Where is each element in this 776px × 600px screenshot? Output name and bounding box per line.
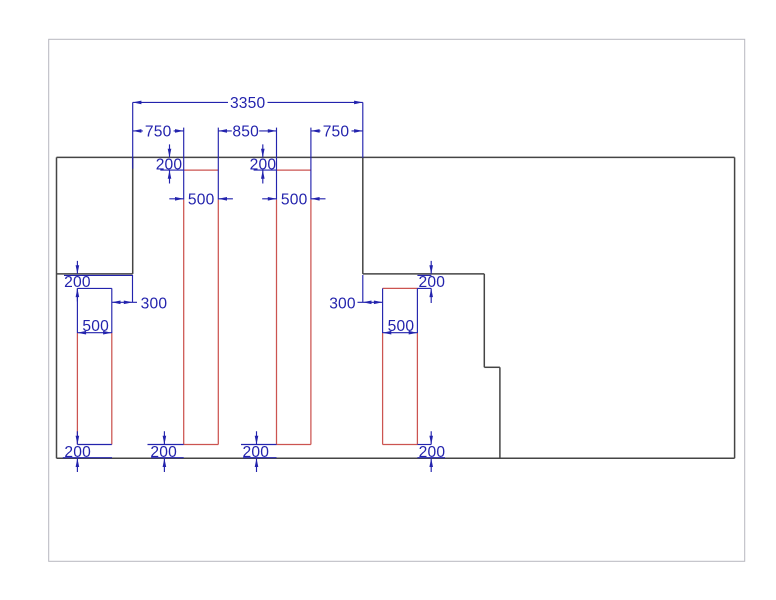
bottom dimension 200 slot B arrows xyxy=(163,431,165,472)
arrowhead 200D top up xyxy=(429,288,433,297)
dimension 300 slot A line xyxy=(112,301,137,303)
slot A blue top edge xyxy=(77,287,111,289)
dimension 200 slot B top arrows xyxy=(169,144,171,183)
svg-text:850: 850 xyxy=(232,124,259,141)
arrowhead 750R right xyxy=(354,129,363,133)
arrowhead 500C left xyxy=(268,197,277,201)
dimension 500 slot A line xyxy=(77,332,111,334)
extension line slot B right xyxy=(217,128,219,200)
dimension 200 slot C top arrows xyxy=(262,144,264,183)
extension line slot C left xyxy=(276,128,278,200)
bottom dimension 200 slot C overline xyxy=(241,444,277,446)
arrowhead 200A top up xyxy=(76,288,80,297)
dimension 500 slot C tails xyxy=(262,198,325,200)
dimension 750 right line xyxy=(311,130,363,132)
bottom dimension 200 slot B underline xyxy=(151,457,184,459)
dimension 500 slot D line xyxy=(383,332,418,334)
svg-text:500: 500 xyxy=(281,192,308,209)
dimension 3350 line xyxy=(133,101,363,103)
svg-text:200: 200 xyxy=(242,444,269,461)
arrowhead 200C bottom down xyxy=(255,436,259,445)
slot C red edges xyxy=(277,170,311,444)
svg-text:750: 750 xyxy=(323,124,350,141)
slot A blue upper side edges xyxy=(77,288,111,333)
arrowhead 200C top down xyxy=(261,149,265,158)
arrowhead 200C top up xyxy=(261,170,265,179)
dimension 300 slot D extension stub xyxy=(362,275,364,302)
svg-text:200: 200 xyxy=(156,157,183,174)
part outline: left wall xyxy=(56,157,58,458)
dimension 3350 extension right xyxy=(362,102,364,157)
arrowhead 200B top down xyxy=(168,149,172,158)
dimension 850 line xyxy=(218,130,276,132)
part outline: right wall xyxy=(734,157,736,458)
dimension 200 slot A top overline xyxy=(64,274,133,276)
arrowhead 500B left xyxy=(175,197,184,201)
slot D blue bottom stub xyxy=(417,444,431,446)
slot D red edges xyxy=(383,288,418,444)
slot A blue bottom edge xyxy=(77,444,111,446)
arrowhead 200B bottom down xyxy=(163,436,167,445)
svg-text:750: 750 xyxy=(145,124,172,141)
arrowhead 200D bottom down xyxy=(429,436,433,445)
left notch inner wall xyxy=(132,157,134,274)
arrowhead 300D right xyxy=(374,301,383,305)
step upper wall xyxy=(483,274,485,367)
step lower wall xyxy=(499,367,501,458)
bottom dimension 200 slot A arrows xyxy=(76,431,78,472)
arrowhead 850 left xyxy=(218,129,227,133)
svg-text:200: 200 xyxy=(150,444,177,461)
arrowhead 850 right xyxy=(268,129,277,133)
arrowhead 500B right xyxy=(218,197,227,201)
arrowhead 300A right xyxy=(124,301,133,305)
arrowhead 200D bottom up xyxy=(429,458,433,467)
dimension 750 left line xyxy=(133,130,184,132)
svg-text:200: 200 xyxy=(419,444,446,461)
arrowhead 200A bottom down xyxy=(76,436,80,445)
arrowhead 200B top up xyxy=(168,170,172,179)
arrowhead 500D right xyxy=(409,331,418,335)
bottom dimension 200 slot A underline xyxy=(63,457,112,459)
dimension 300 slot A extension stub xyxy=(132,275,134,302)
extension line slot B left xyxy=(183,128,185,200)
left shelf xyxy=(57,273,133,275)
bottom dimension 200 slot B overline xyxy=(148,444,184,446)
arrowhead 3350 right xyxy=(354,101,363,105)
slot B red edges xyxy=(184,170,219,444)
arrowhead 500D left xyxy=(383,331,392,335)
arrowhead 300A left xyxy=(112,301,121,305)
slot D blue upper side edges xyxy=(383,288,418,333)
arrowhead 750L left xyxy=(133,129,142,133)
arrowhead 3350 left xyxy=(133,101,142,105)
dimension 3350 extension left xyxy=(132,102,134,168)
arrowhead 500C right xyxy=(311,197,320,201)
dimension 500 slot B tails xyxy=(169,198,233,200)
svg-text:300: 300 xyxy=(141,295,168,312)
arrowhead 750R left xyxy=(311,129,320,133)
svg-text:3350: 3350 xyxy=(230,95,266,112)
arrowhead 500A right xyxy=(103,331,112,335)
part outline: top surface xyxy=(57,156,735,158)
step tread xyxy=(484,366,500,368)
part outline: bottom edge xyxy=(57,457,735,459)
slot A red edges xyxy=(77,333,111,445)
arrowhead 200C bottom up xyxy=(255,458,259,467)
arrowhead 200D top down xyxy=(429,265,433,274)
bottom dimension 200 slot C underline xyxy=(243,457,277,459)
right shelf xyxy=(363,273,485,275)
dimension 200 slot A top arrows xyxy=(76,261,78,302)
svg-text:300: 300 xyxy=(329,295,356,312)
svg-text:200: 200 xyxy=(64,274,91,291)
svg-text:200: 200 xyxy=(64,444,91,461)
dimension 200 slot D top overline xyxy=(417,274,431,276)
arrowhead 500A left xyxy=(77,331,86,335)
extension line slot C right xyxy=(310,128,312,200)
dimension 200 slot B top underline xyxy=(160,169,183,171)
slot D blue top stub xyxy=(417,287,431,289)
arrowhead 300D left xyxy=(363,301,372,305)
arrowhead 200A bottom up xyxy=(76,458,80,467)
dimension 300 slot D line xyxy=(358,301,383,303)
arrowhead 200A top down xyxy=(76,265,80,274)
right notch inner wall xyxy=(362,157,364,274)
svg-text:500: 500 xyxy=(188,192,215,209)
bottom dimension 200 slot D underline xyxy=(417,457,445,459)
arrowhead 750L right xyxy=(175,129,184,133)
bottom dimension 200 slot D arrows xyxy=(430,431,432,472)
dimension 200 slot D top arrows xyxy=(430,261,432,303)
svg-text:500: 500 xyxy=(82,318,109,335)
svg-text:500: 500 xyxy=(388,318,415,335)
arrowhead 200B bottom up xyxy=(163,458,167,467)
svg-text:200: 200 xyxy=(250,157,277,174)
svg-text:200: 200 xyxy=(418,274,445,291)
bottom dimension 200 slot C arrows xyxy=(256,431,258,472)
dimension 200 slot C top underline xyxy=(254,169,277,171)
drawing frame border xyxy=(49,39,745,561)
